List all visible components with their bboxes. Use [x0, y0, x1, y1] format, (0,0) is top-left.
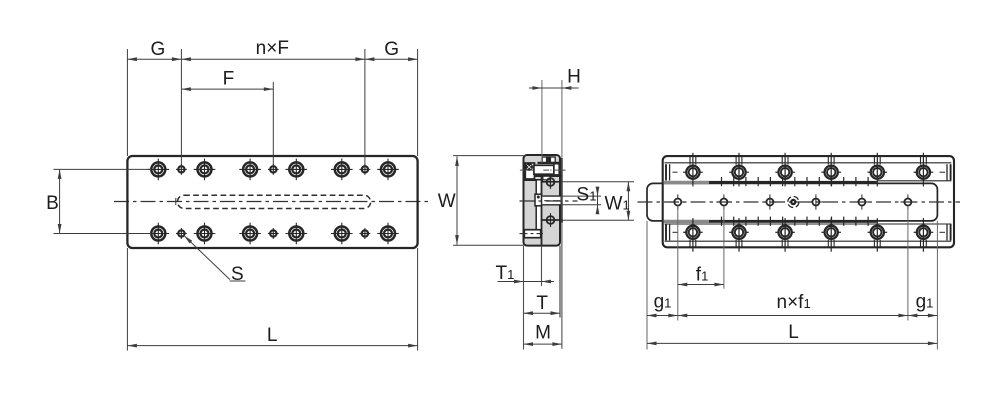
- dimension S1: [561, 185, 602, 215]
- counterbored holes bottom row: [148, 223, 399, 245]
- rack graduation ticks bottom: [722, 217, 869, 226]
- left view: top view of slide table: [114, 156, 432, 248]
- mid white column: [537, 181, 541, 230]
- dimension nxf1: [678, 206, 908, 321]
- bottom T-slot band: [524, 230, 540, 238]
- bottom thick edge: [664, 220, 877, 223]
- svg-text:S: S: [231, 264, 244, 285]
- dimension G (left): [127, 39, 181, 166]
- dashed slot (hidden table outline): [178, 195, 371, 208]
- dimension L (right view): [647, 322, 937, 345]
- svg-text:n×F: n×F: [256, 38, 289, 59]
- screw holes top row (right view): [683, 153, 933, 187]
- dimension W: [438, 156, 524, 246]
- dimension L (left view): [127, 248, 417, 351]
- svg-text:g1: g1: [916, 292, 934, 313]
- rack graduation ticks top: [722, 177, 869, 186]
- svg-text:L: L: [788, 322, 799, 343]
- leader S (counterbore callout): [184, 236, 245, 285]
- svg-text:H: H: [567, 67, 581, 88]
- outer table outline: [663, 156, 954, 247]
- svg-text:G: G: [384, 39, 399, 60]
- svg-text:T: T: [536, 293, 548, 314]
- dimension g1 right: [908, 221, 938, 350]
- top section divider: [538, 162, 560, 164]
- slot end caps right: [940, 164, 951, 240]
- centerline right view: [638, 201, 961, 203]
- recess bottom step: [524, 179, 544, 181]
- dimension G (right): [365, 39, 418, 156]
- channel bottom line: [534, 175, 561, 177]
- dimension T1: [496, 246, 555, 350]
- dimension H: [529, 67, 581, 163]
- slot end center tick: [175, 198, 177, 205]
- horizontal channel: [534, 165, 554, 174]
- svg-text:B: B: [46, 193, 59, 214]
- table screw upper: [542, 181, 562, 183]
- svg-text:g1: g1: [654, 292, 672, 313]
- S1 notch: [535, 194, 542, 206]
- svg-text:F: F: [223, 69, 235, 90]
- dimension nxF: [181, 38, 365, 166]
- channel axis line: [520, 169, 534, 171]
- screw holes bottom row (right view): [683, 218, 933, 252]
- dimension W1: [561, 182, 635, 220]
- right slot: [554, 164, 559, 175]
- svg-text:n×f1: n×f1: [777, 292, 811, 313]
- centerline left view: [114, 201, 432, 203]
- svg-text:W1: W1: [605, 193, 630, 214]
- counterbored holes top row: [148, 159, 399, 181]
- svg-text:T1: T1: [496, 263, 515, 284]
- section body gray: [524, 155, 561, 246]
- bottom strip inner lines: [665, 223, 952, 225]
- slot end caps left: [666, 164, 678, 240]
- dimension f1: [678, 206, 724, 321]
- centerline middle view: [520, 200, 578, 202]
- center pin hole: [788, 197, 799, 208]
- rail mounting holes: [670, 194, 915, 209]
- tongue right edge: [561, 158, 563, 223]
- svg-text:G: G: [151, 39, 166, 60]
- plate outline left view: [127, 156, 417, 248]
- svg-text:L: L: [267, 325, 278, 346]
- svg-text:M: M: [535, 323, 551, 344]
- svg-text:W: W: [438, 191, 456, 212]
- set screw recess: [525, 163, 534, 179]
- dimension M: [524, 222, 562, 349]
- dimension g1 left: [647, 221, 678, 350]
- set screw (hatched): [526, 164, 532, 170]
- rail band: [647, 183, 937, 221]
- upper screw notch: [543, 176, 550, 180]
- svg-text:f1: f1: [696, 265, 709, 286]
- right view: bottom view: [647, 156, 954, 247]
- S1 slot white: [542, 196, 560, 205]
- middle view: side cross-section body: [520, 155, 566, 246]
- dimension T: [524, 246, 561, 318]
- top notches: [542, 157, 546, 163]
- top strip inner line: [665, 162, 952, 164]
- dimension B: [46, 169, 151, 233]
- dimension F: [181, 69, 273, 167]
- svg-text:S1: S1: [577, 185, 597, 206]
- top thick edge: [664, 181, 877, 184]
- table screw lower: [547, 216, 555, 224]
